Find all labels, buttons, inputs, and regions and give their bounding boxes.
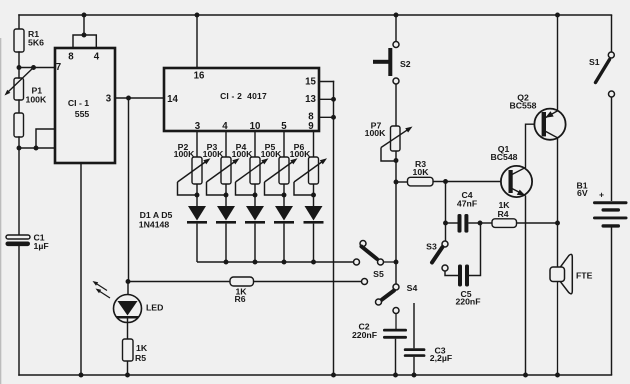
speaker FTE: [550, 254, 572, 375]
svg-text:10: 10: [250, 121, 261, 132]
node 555 pins 2-6 junctions: [17, 146, 39, 151]
potentiometer P6: [294, 131, 327, 195]
svg-text:47nF: 47nF: [457, 199, 477, 209]
svg-text:R5: R5: [135, 353, 146, 363]
svg-text:CI - 2 4017: CI - 2 4017: [220, 91, 267, 101]
svg-text:4: 4: [222, 121, 228, 132]
diode D5: [304, 195, 324, 262]
wire 4017 pin 13: [319, 98, 334, 100]
wire 555 pin 3 down to LED node: [128, 98, 130, 282]
wire top supply rail: [19, 14, 612, 16]
transistor Q2 BC558: [534, 15, 565, 267]
svg-text:D1 A D5: D1 A D5: [140, 210, 173, 220]
wire resistor to node 2-6: [18, 137, 20, 148]
svg-text:LED: LED: [146, 303, 163, 313]
transistor Q1 BC548: [501, 124, 542, 375]
resistor R3: [396, 177, 509, 186]
wire left column top to R1: [18, 15, 20, 29]
battery B1: [593, 201, 628, 227]
wire battery to ground rail: [611, 228, 613, 376]
svg-text:R6: R6: [234, 294, 245, 304]
svg-text:13: 13: [305, 94, 316, 105]
node R3-Q1 base junction: [443, 179, 448, 184]
wire 555 pin 1 to ground: [80, 163, 82, 375]
diode D3: [245, 195, 265, 262]
svg-text:BC548: BC548: [490, 152, 517, 162]
node top rail junctions: [82, 13, 560, 18]
switch S1: [596, 15, 615, 201]
node 555 pin7 junctions: [17, 65, 36, 70]
capacitor C3: [404, 303, 426, 375]
svg-text:+: +: [599, 190, 604, 200]
svg-text:S5: S5: [373, 269, 384, 279]
node P7 wiper junction: [394, 158, 399, 163]
node C4 left junction: [443, 221, 448, 226]
resistor R1: [14, 29, 24, 52]
svg-text:555: 555: [75, 109, 90, 119]
svg-text:S1: S1: [589, 57, 600, 67]
wire 555 output R6 line: [128, 281, 362, 283]
wire S3 to C5: [445, 271, 458, 276]
switch S2 pushbutton: [373, 15, 399, 126]
wire bottom ground rail: [19, 374, 612, 376]
svg-text:3: 3: [195, 121, 201, 132]
wire node to C1: [18, 148, 20, 235]
diode D2: [216, 195, 236, 262]
wire 4017 pin 15: [319, 81, 334, 83]
node 4017 pins 13-8 bus junctions: [331, 97, 336, 120]
LED: [93, 281, 142, 339]
svg-text:10K: 10K: [413, 167, 430, 177]
svg-text:3: 3: [106, 94, 112, 105]
wire P1 to lower resistor: [18, 100, 20, 113]
resistor R4: [480, 219, 558, 228]
svg-text:5: 5: [281, 121, 287, 132]
wire node row to 555 pin 7: [19, 67, 55, 69]
wire R5 to ground: [127, 361, 129, 375]
node C4-R4 junction: [478, 221, 483, 226]
svg-text:1K: 1K: [136, 343, 148, 353]
node S5 junction: [394, 260, 399, 265]
wire 4017 pin 16 to rail: [196, 15, 198, 68]
wire riser to 555 pin 6: [36, 129, 55, 148]
wire node row to 555 pin 2: [19, 147, 55, 149]
capacitor C2: [383, 329, 407, 375]
svg-text:100K: 100K: [290, 149, 311, 159]
svg-text:100K: 100K: [232, 149, 253, 159]
wire diode cathode bus: [197, 261, 354, 263]
svg-text:100K: 100K: [261, 149, 282, 159]
svg-text:100K: 100K: [26, 95, 47, 105]
svg-text:S3: S3: [426, 242, 437, 252]
node 555 pins 8-4 bracket junction: [82, 33, 87, 38]
svg-text:4: 4: [94, 52, 100, 63]
diode D1: [187, 195, 207, 262]
svg-text:15: 15: [305, 77, 316, 88]
potentiometer P1 body: [14, 78, 24, 100]
svg-text:CI - 1: CI - 1: [68, 98, 89, 108]
node 555 pin3 junction: [126, 96, 131, 101]
node ground rail junctions: [79, 373, 560, 378]
svg-text:16: 16: [194, 71, 205, 82]
IC U2 4017 box: [164, 68, 319, 131]
potentiometer P7: [381, 126, 413, 284]
svg-text:S2: S2: [400, 59, 411, 69]
wire node to P1: [18, 68, 20, 79]
switch S4: [376, 284, 400, 329]
wire R1 to node: [18, 52, 20, 68]
svg-text:220nF: 220nF: [455, 297, 480, 307]
wire R3 node down to C4 and S3: [445, 182, 447, 242]
svg-text:R4: R4: [497, 209, 508, 219]
svg-text:100K: 100K: [365, 128, 386, 138]
svg-text:1µF: 1µF: [34, 241, 49, 251]
resistor below P1: [14, 113, 24, 137]
svg-text:S4: S4: [407, 283, 418, 293]
op-amp timer IC U1 555 box: [55, 48, 115, 163]
wire 555 pin 3 to 4017 pin 14: [115, 97, 164, 99]
potentiometer P5: [265, 131, 298, 195]
svg-text:5K6: 5K6: [28, 38, 44, 48]
node diode bus junctions: [224, 260, 316, 265]
wire 4017 ground bus: [333, 82, 335, 376]
switch S5: [354, 241, 397, 285]
svg-text:8: 8: [68, 52, 74, 63]
capacitor C1 top plate: [6, 235, 30, 239]
svg-text:220nF: 220nF: [352, 330, 377, 340]
node R4-speaker junction: [555, 221, 560, 226]
node R3 left junction: [394, 180, 399, 185]
svg-text:2,2µF: 2,2µF: [430, 353, 452, 363]
svg-text:BC558: BC558: [509, 101, 536, 111]
resistor R5: [123, 339, 134, 361]
svg-text:9: 9: [308, 121, 314, 132]
wire 4017 pin 8: [319, 116, 334, 118]
svg-text:1N4148: 1N4148: [139, 220, 170, 230]
node pot wiper junctions: [195, 193, 316, 198]
svg-text:100K: 100K: [203, 149, 224, 159]
wire C1 to ground rail: [18, 246, 20, 375]
svg-text:7: 7: [56, 62, 61, 73]
svg-text:14: 14: [167, 94, 178, 105]
capacitor C1 bottom plate: [6, 242, 31, 247]
potentiometer P2: [178, 131, 211, 195]
diode D4: [274, 195, 294, 262]
capacitor C5: [458, 223, 481, 287]
potentiometer P1 wiper arrow: [5, 68, 34, 96]
svg-text:6V: 6V: [577, 188, 588, 198]
potentiometer P4: [236, 131, 269, 195]
potentiometer P3: [207, 131, 240, 195]
svg-text:FTE: FTE: [576, 271, 593, 281]
switch S3: [432, 241, 448, 271]
node 555 output LED junction: [126, 279, 131, 284]
capacitor C4: [446, 214, 481, 233]
wire 555 pins 8-4 bracket: [73, 15, 96, 48]
svg-text:100K: 100K: [174, 149, 195, 159]
resistor R6: [230, 277, 254, 286]
